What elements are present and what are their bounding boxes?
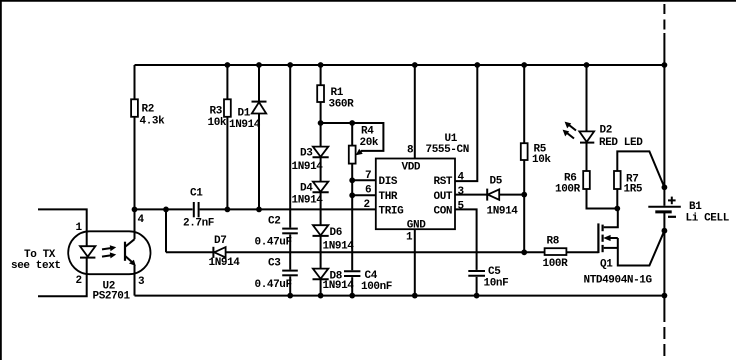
capacitor C5 [468, 266, 508, 290]
wire D5 junction down to gate row [523, 195, 525, 253]
svg-text:360R: 360R [329, 99, 355, 111]
junction dots D5 node [521, 192, 527, 256]
svg-text:1N914: 1N914 [292, 195, 324, 207]
node To TX text [11, 249, 61, 272]
resistor R7 [614, 171, 643, 196]
svg-text:1: 1 [406, 232, 413, 244]
svg-text:Q1: Q1 [600, 259, 613, 271]
svg-text:100R: 100R [555, 184, 581, 196]
capacitor C1 [183, 188, 214, 230]
svg-text:2.7nF: 2.7nF [183, 218, 214, 230]
wire U1 GND pin 1 [414, 229, 416, 295]
junction dots battery line [662, 184, 668, 233]
resistor R3 [208, 99, 231, 129]
wire D1 column [258, 65, 260, 209]
diode D3 [292, 147, 329, 173]
svg-text:R3: R3 [210, 106, 223, 118]
svg-text:10k: 10k [208, 117, 227, 129]
svg-text:C3: C3 [268, 258, 281, 270]
junction dots bottom rail [287, 293, 667, 299]
battery B1 [648, 197, 729, 225]
wire D7 gate row [166, 251, 598, 253]
wire dashed cell line top [663, 4, 665, 33]
svg-text:1N914: 1N914 [292, 161, 324, 173]
wire battery cell line [663, 33, 665, 206]
svg-text:PS2701: PS2701 [93, 291, 131, 303]
svg-text:100nF: 100nF [361, 281, 392, 293]
wire R1 diode chain column [320, 65, 322, 296]
wire U1 VDD pin 8 [414, 65, 416, 159]
svg-text:RST: RST [434, 176, 453, 188]
diode D8 [313, 269, 355, 292]
svg-text:RED LED: RED LED [599, 137, 643, 149]
timer U1 7555 [376, 133, 469, 232]
svg-text:THR: THR [379, 191, 398, 203]
svg-text:3: 3 [458, 186, 465, 198]
svg-text:Li CELL: Li CELL [686, 213, 730, 225]
wire C2 C3 column [289, 65, 291, 296]
diode D7 [209, 235, 241, 269]
svg-text:1N914: 1N914 [323, 241, 355, 253]
trimpot R4 [349, 126, 379, 164]
wire R5 column [523, 65, 525, 195]
svg-text:2: 2 [364, 199, 370, 211]
resistor R8 [543, 236, 569, 271]
junction dots TRIG row [132, 207, 262, 213]
wire U1 CON pin 5 to C5 [455, 209, 477, 295]
wire R4 wiper loop [352, 123, 383, 151]
junction dots top rail [225, 62, 668, 68]
svg-text:4: 4 [458, 172, 465, 184]
wire U1 OUT pin 3 to D5 [455, 194, 524, 196]
svg-text:2: 2 [76, 275, 82, 287]
svg-text:TRIG: TRIG [379, 206, 405, 218]
wire D7 branch vertical [165, 209, 167, 252]
wire opto pin3 to bottom rail [134, 274, 136, 295]
svg-text:C2: C2 [268, 216, 280, 228]
svg-text:NTD4904N-1G: NTD4904N-1G [584, 275, 653, 287]
svg-text:D5: D5 [490, 176, 503, 188]
optocoupler U2 [68, 231, 150, 302]
svg-text:1N914: 1N914 [229, 119, 261, 131]
svg-text:1: 1 [76, 222, 83, 234]
wire THR stub [352, 194, 376, 196]
wire D2 R6 column [587, 65, 618, 209]
mosfet Q1 [584, 209, 665, 287]
resistor R6 [555, 171, 590, 196]
svg-text:D2: D2 [600, 125, 612, 137]
svg-text:1N914: 1N914 [209, 257, 241, 269]
svg-text:1R5: 1R5 [624, 184, 643, 196]
svg-text:4.3k: 4.3k [140, 116, 166, 128]
svg-text:D3: D3 [300, 148, 313, 160]
junction dot R6 R7 drain [614, 206, 620, 212]
wire dashed cell line bottom [663, 327, 665, 357]
svg-text:DIS: DIS [379, 176, 398, 188]
wire R4 C4 column [351, 123, 353, 296]
svg-text:CON: CON [434, 206, 453, 218]
svg-text:3: 3 [138, 276, 145, 288]
svg-text:10k: 10k [532, 154, 551, 166]
diode D4 [292, 182, 329, 207]
resistor R2 [131, 99, 165, 127]
capacitor C4 [344, 270, 393, 293]
border frame left [0, 0, 2, 360]
svg-text:VDD: VDD [402, 162, 421, 174]
resistor R5 [521, 143, 552, 166]
wire opto pin1 input [38, 209, 87, 231]
wire battery to bottom rail [663, 213, 665, 322]
svg-text:GND: GND [407, 220, 426, 232]
wire R2 / opto pin4 column [134, 65, 136, 231]
svg-text:R8: R8 [547, 236, 560, 248]
svg-text:0.47uF: 0.47uF [255, 279, 292, 291]
capacitor C3 [255, 258, 299, 292]
diode D5 [487, 176, 519, 218]
resistor R1 [317, 85, 354, 110]
svg-text:1N914: 1N914 [323, 280, 355, 292]
svg-text:10nF: 10nF [484, 278, 509, 290]
capacitor C2 [255, 216, 299, 249]
svg-text:0.47uF: 0.47uF [255, 237, 292, 249]
svg-text:R2: R2 [142, 104, 154, 116]
svg-text:see text: see text [11, 260, 61, 272]
wire R3 column [226, 65, 228, 209]
svg-text:OUT: OUT [434, 191, 453, 203]
svg-text:D4: D4 [300, 183, 313, 195]
svg-text:7555-CN: 7555-CN [426, 144, 469, 156]
svg-text:D7: D7 [214, 235, 226, 247]
svg-text:8: 8 [407, 145, 414, 157]
svg-text:5: 5 [458, 201, 465, 213]
wire top supply rail [135, 64, 665, 66]
svg-text:R1: R1 [331, 87, 344, 99]
led D2 [563, 122, 644, 149]
diode D1 [229, 102, 267, 131]
svg-text:4: 4 [138, 214, 145, 226]
svg-text:100R: 100R [543, 258, 569, 270]
svg-text:20k: 20k [360, 137, 379, 149]
wire DIS stub [352, 179, 376, 181]
svg-text:1N914: 1N914 [487, 206, 519, 218]
wire TRIG line C1 row [135, 208, 376, 210]
junction dots R4 branch [318, 120, 355, 198]
svg-text:C1: C1 [190, 188, 203, 200]
border frame top [0, 0, 736, 2]
wire U1 RST pin 4 [455, 65, 477, 181]
wire bottom ground rail [135, 295, 665, 297]
svg-text:B1: B1 [689, 201, 702, 213]
svg-text:D1: D1 [238, 108, 251, 120]
svg-text:C5: C5 [488, 266, 501, 278]
wire R7 column [617, 151, 664, 208]
wire opto pin2 input [38, 274, 87, 296]
wire R1 to R4 branch [321, 122, 353, 124]
svg-text:D6: D6 [330, 227, 342, 239]
svg-text:R4: R4 [361, 126, 374, 138]
diode D6 [313, 225, 355, 252]
